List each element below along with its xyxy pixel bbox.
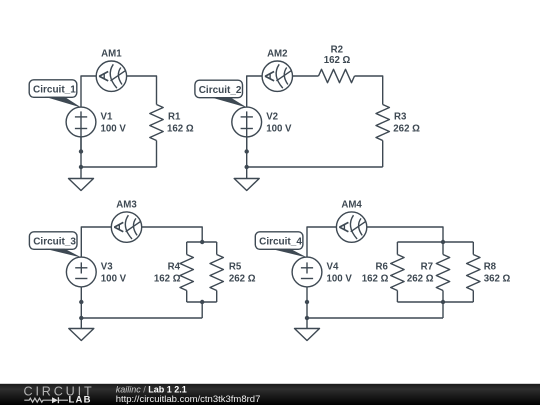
svg-text:V3: V3 xyxy=(101,262,113,273)
svg-text:R6: R6 xyxy=(376,262,389,273)
junction dot V4 bottom terminal xyxy=(305,300,309,304)
wire parallel bottom to bottom rail C4 xyxy=(442,302,444,318)
svg-text:100 V: 100 V xyxy=(266,124,292,135)
logo diode xyxy=(52,397,68,403)
wire bottom rail C3 xyxy=(81,317,202,319)
wire bottom rail C2 xyxy=(247,166,383,168)
resistor R2 xyxy=(319,69,355,82)
wire R7 branch leads xyxy=(442,242,444,255)
svg-text:R8: R8 xyxy=(484,262,497,273)
svg-text:100 V: 100 V xyxy=(101,274,127,285)
resistor R4 xyxy=(180,255,193,291)
svg-text:362 Ω: 362 Ω xyxy=(484,274,511,285)
resistor R5 xyxy=(210,255,223,291)
svg-text:162 Ω: 162 Ω xyxy=(362,274,389,285)
voltage source V4 xyxy=(292,257,322,287)
voltage source V2 xyxy=(232,107,262,152)
wire AM1 right to R1 top xyxy=(127,76,157,105)
svg-text:http://circuitlab.com/ctn3tk3f: http://circuitlab.com/ctn3tk3fm8rd7 xyxy=(116,394,261,405)
wire top rail parallel C4 xyxy=(397,241,473,243)
svg-text:R2: R2 xyxy=(331,45,343,56)
node flag Circuit_4 xyxy=(255,232,307,258)
wire node top-left C3: V3 top to AM3 left xyxy=(81,227,111,257)
wire R1 bottom lead xyxy=(156,141,158,168)
wire parallel bottom to bottom rail C3 xyxy=(201,302,203,318)
wire AM4 right to parallel top node xyxy=(367,227,443,242)
svg-text:V1: V1 xyxy=(101,112,113,123)
svg-text:Circuit_4: Circuit_4 xyxy=(259,236,302,247)
ammeter AM2 xyxy=(262,61,292,91)
junction dot C4 ground node xyxy=(305,316,309,320)
ammeter AM1 xyxy=(96,61,126,91)
junction dot C2 ground node xyxy=(245,165,249,169)
svg-text:AM3: AM3 xyxy=(116,200,137,211)
resistor R3 xyxy=(376,105,389,141)
wire top rail parallel C3 xyxy=(187,241,217,243)
svg-text:262 Ω: 262 Ω xyxy=(393,124,420,135)
junction dot V1 bottom terminal xyxy=(79,149,83,153)
wire R3 bottom lead xyxy=(382,141,384,168)
ground C1 xyxy=(69,167,94,191)
svg-text:100 V: 100 V xyxy=(327,274,353,285)
wire AM2 right to R2 left xyxy=(293,75,319,77)
wire AM3 right to parallel top node xyxy=(142,227,203,242)
svg-text:LAB: LAB xyxy=(69,395,92,405)
svg-text:162 Ω: 162 Ω xyxy=(167,124,194,135)
svg-text:AM1: AM1 xyxy=(101,49,122,60)
wire R6 branch leads xyxy=(396,242,398,255)
svg-text:V4: V4 xyxy=(327,262,339,273)
wire V3 bottom to ground node xyxy=(80,287,82,318)
svg-text:AM4: AM4 xyxy=(341,200,362,211)
svg-text:R5: R5 xyxy=(229,262,242,273)
svg-text:100 V: 100 V xyxy=(101,124,127,135)
wire R8 branch leads xyxy=(472,242,474,255)
junction dot parallel top C3 xyxy=(200,240,204,244)
wire bottom rail C1 xyxy=(81,166,157,168)
node flag Circuit_2 xyxy=(195,80,247,107)
svg-text:V2: V2 xyxy=(266,112,278,123)
svg-text:Circuit_3: Circuit_3 xyxy=(33,236,76,247)
resistor R1 xyxy=(150,105,163,141)
wire bottom rail parallel C4 xyxy=(397,301,473,303)
svg-text:Circuit_2: Circuit_2 xyxy=(199,85,242,96)
wire node top-left C1: V1 top to AM1 left xyxy=(81,76,96,107)
svg-text:162 Ω: 162 Ω xyxy=(324,55,351,66)
wire V1 bottom to ground node xyxy=(80,137,82,167)
svg-text:R7: R7 xyxy=(421,262,433,273)
wire V2 bottom to ground node xyxy=(246,137,248,167)
wire node top-left C2: V2 top to AM2 left xyxy=(247,76,262,107)
svg-text:AM2: AM2 xyxy=(267,49,287,60)
voltage source V3 xyxy=(66,257,96,287)
svg-text:262 Ω: 262 Ω xyxy=(229,274,256,285)
svg-text:Circuit_1: Circuit_1 xyxy=(33,84,76,95)
wire R4 branch leads xyxy=(186,242,188,255)
resistor R6 xyxy=(391,255,404,291)
junction dot C1 ground node xyxy=(79,165,83,169)
logo resistor zigzag xyxy=(24,398,52,402)
node flag Circuit_3 xyxy=(29,232,81,258)
junction dot parallel top C4 xyxy=(441,240,445,244)
wire R5 branch leads xyxy=(216,242,218,255)
resistor R7 xyxy=(436,255,449,291)
junction dot V3 bottom terminal xyxy=(79,300,83,304)
junction dot V2 bottom terminal xyxy=(245,149,249,153)
svg-text:162 Ω: 162 Ω xyxy=(154,274,181,285)
ground C2 xyxy=(234,167,259,191)
svg-text:kailinc / Lab 1 2.1: kailinc / Lab 1 2.1 xyxy=(116,385,187,395)
svg-text:R1: R1 xyxy=(168,112,181,123)
wire node top-left C4: V4 top to AM4 left xyxy=(307,227,336,257)
wire V4 bottom to ground node xyxy=(306,287,308,318)
ground C3 xyxy=(69,318,94,341)
junction dot C3 ground node xyxy=(79,316,83,320)
junction dot parallel bottom C4 xyxy=(441,300,445,304)
voltage source V1 xyxy=(66,107,96,152)
svg-text:262 Ω: 262 Ω xyxy=(407,274,434,285)
wire bottom rail parallel C3 xyxy=(187,301,217,303)
ground C4 xyxy=(295,318,320,341)
ammeter AM3 xyxy=(111,212,141,242)
ammeter AM4 xyxy=(336,212,366,242)
svg-text:R4: R4 xyxy=(168,262,181,273)
svg-text:R3: R3 xyxy=(394,112,407,123)
wire bottom rail C4 xyxy=(307,317,443,319)
wire R2 right to R3 top xyxy=(355,76,383,105)
node flag Circuit_1 xyxy=(29,80,81,108)
junction dot parallel bottom C3 xyxy=(200,300,204,304)
resistor R8 xyxy=(467,255,480,291)
